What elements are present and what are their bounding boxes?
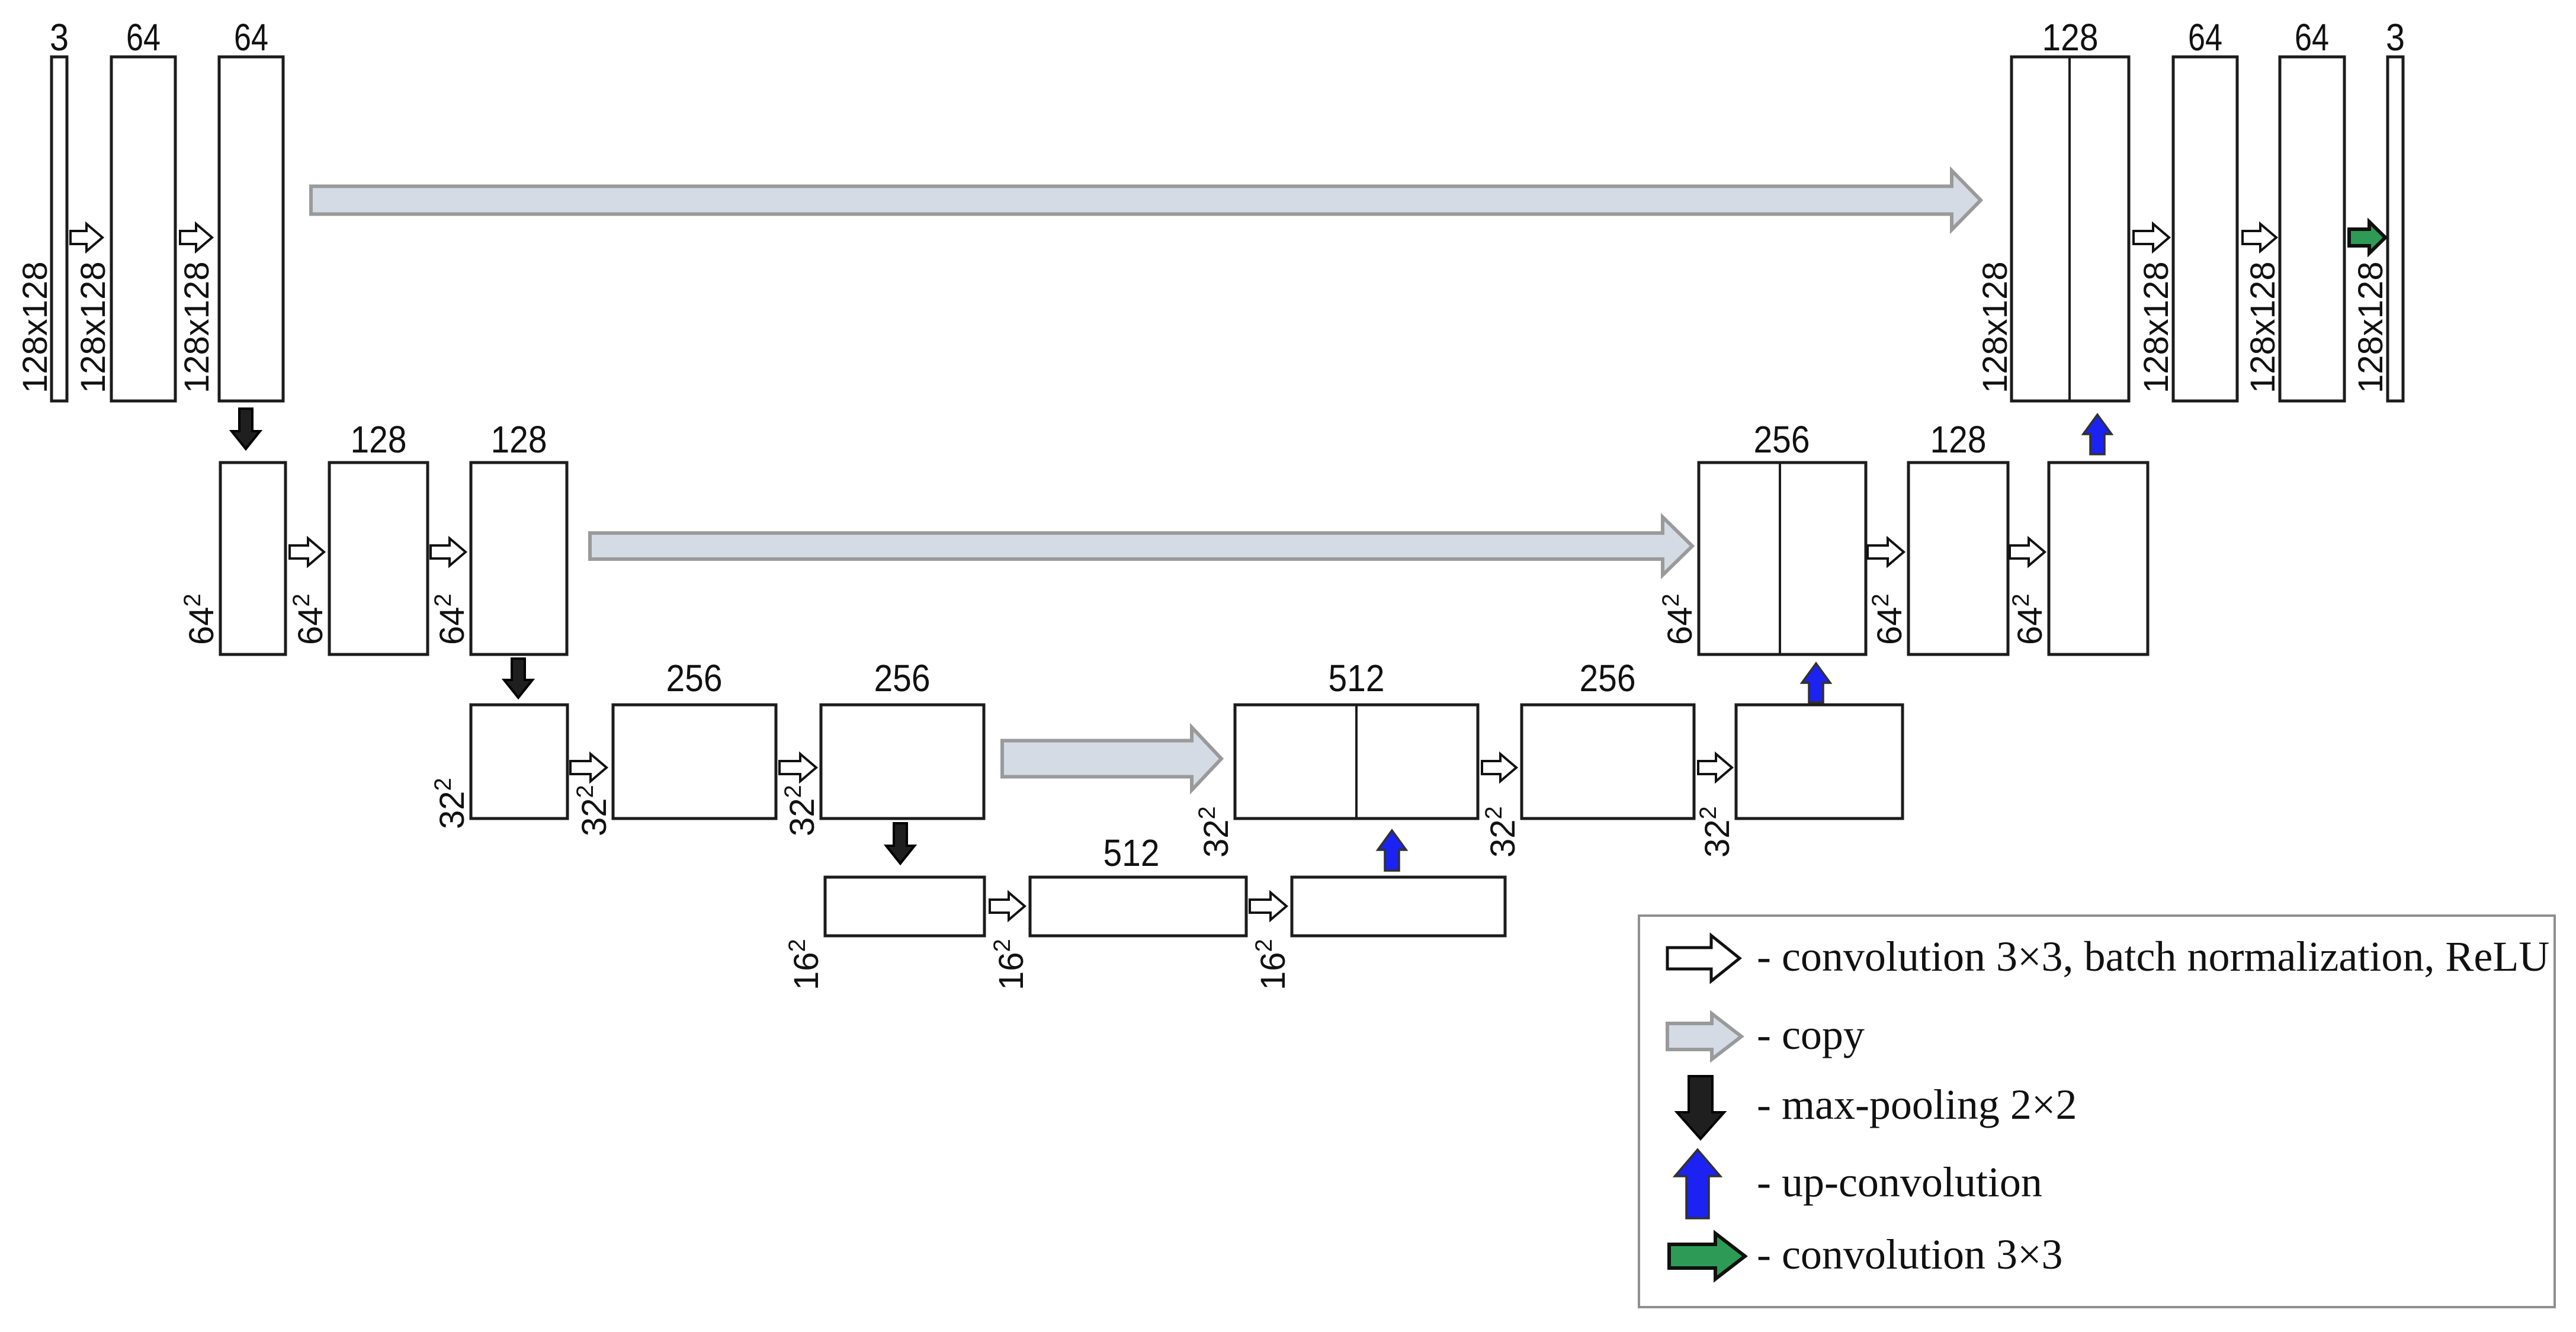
svg-text:- max-pooling 2×2: - max-pooling 2×2 — [1757, 1081, 2077, 1128]
svg-text:64: 64 — [126, 16, 161, 59]
svg-text:128: 128 — [2042, 16, 2099, 59]
encoder conv box 64@128x128 (first) — [111, 57, 175, 401]
decoder conv box 128 level2 — [1908, 463, 2008, 654]
copy arrow level3 (skip connection) — [1002, 727, 1221, 790]
up-convolution arrow level4 to level3 — [1378, 830, 1406, 871]
conv arrow concat to dec1 — [2134, 224, 2169, 251]
encoder box 32^2 (after pool) — [471, 705, 567, 819]
svg-text:256: 256 — [1754, 418, 1810, 461]
conv arrow level3 enc a to b — [570, 754, 607, 781]
conv arrow level2 enc b to c — [431, 538, 466, 566]
svg-text:64: 64 — [2295, 16, 2329, 59]
decoder conv box 64@128x128 (first) — [2173, 57, 2237, 401]
svg-text:128x128: 128x128 — [2244, 261, 2282, 393]
conv arrow level2 enc a to b — [290, 538, 324, 566]
legend max-pooling arrow — [1677, 1076, 1724, 1139]
legend copy arrow — [1667, 1014, 1741, 1060]
conv arrow level2 dec 128 to last — [2010, 538, 2045, 566]
conv arrow enc1 to enc2 — [180, 224, 212, 251]
decoder conv box 64@128x128 (second) — [2280, 57, 2344, 401]
encoder box 64^2 (after pool) — [220, 463, 285, 654]
svg-text:128x128: 128x128 — [2137, 261, 2176, 393]
encoder conv box 128 level2 (second) — [471, 463, 567, 654]
max-pool arrow level3 to level4 — [886, 823, 915, 864]
conv arrow dec1 to dec2 — [2243, 224, 2276, 251]
decoder conv box 256 level3 — [1522, 705, 1694, 819]
max-pool arrow level2 to level3 — [504, 659, 532, 698]
conv arrow level3 enc b to c — [779, 754, 816, 781]
decoder concatenated box 512 level3 — [1235, 705, 1478, 819]
max-pool arrow level1 to level2 — [232, 409, 260, 449]
svg-text:512: 512 — [1103, 832, 1160, 874]
decoder concatenated box 256 level2 — [1699, 463, 1866, 654]
up-convolution arrow level3 to level2 — [1802, 663, 1830, 702]
decoder concatenated box 128@128x128 — [2012, 57, 2129, 401]
svg-text:128x128: 128x128 — [178, 261, 216, 393]
conv arrow level2 dec concat to 128 — [1868, 538, 1904, 566]
svg-text:- copy: - copy — [1757, 1011, 1865, 1058]
svg-text:128x128: 128x128 — [2352, 261, 2390, 393]
encoder conv box 256 level3 (second) — [821, 705, 984, 819]
svg-text:256: 256 — [1580, 657, 1636, 699]
svg-text:256: 256 — [874, 657, 931, 699]
decoder box level3 (last) — [1736, 705, 1903, 819]
conv arrow bottleneck a to b — [990, 893, 1025, 920]
encoder conv box 256 level3 (first) — [613, 705, 776, 819]
bottleneck box 16^2 (after pool) — [825, 877, 984, 936]
conv arrow level3 dec concat to 256 — [1482, 754, 1516, 781]
green conv 3x3 arrow to output — [2349, 222, 2385, 253]
legend white conv arrow — [1667, 936, 1740, 981]
svg-text:3: 3 — [2386, 16, 2405, 59]
conv arrow bottleneck b to c — [1250, 893, 1287, 920]
conv arrow level3 dec 256 to last — [1698, 754, 1732, 781]
svg-text:128: 128 — [351, 418, 407, 461]
svg-text:128x128: 128x128 — [1976, 261, 2014, 393]
svg-text:128: 128 — [491, 418, 547, 461]
conv arrow input to enc1 — [70, 224, 102, 251]
svg-text:128: 128 — [1930, 418, 1987, 461]
bottleneck box (last) — [1292, 877, 1505, 936]
svg-text:128x128: 128x128 — [16, 261, 54, 393]
svg-text:- up-convolution: - up-convolution — [1757, 1158, 2042, 1206]
svg-text:256: 256 — [666, 657, 723, 699]
decoder box level2 (last) — [2049, 463, 2148, 654]
svg-text:3: 3 — [50, 16, 69, 59]
svg-text:64: 64 — [234, 16, 268, 59]
svg-text:- convolution 3×3, batch norma: - convolution 3×3, batch normalization, … — [1757, 933, 2549, 980]
copy arrow level1 (skip connection) — [311, 171, 1981, 230]
encoder conv box 128 level2 (first) — [329, 463, 428, 654]
legend green conv arrow — [1669, 1234, 1745, 1279]
copy arrow level2 (skip connection) — [590, 517, 1692, 575]
up-convolution arrow level2 to level1 — [2083, 415, 2112, 454]
encoder input feature map 3@128x128 — [52, 57, 67, 401]
svg-text:- convolution 3×3: - convolution 3×3 — [1757, 1231, 2063, 1278]
bottleneck conv box 512 — [1030, 877, 1246, 936]
svg-text:128x128: 128x128 — [74, 261, 113, 393]
legend box — [1639, 916, 2555, 1307]
legend up-convolution arrow — [1675, 1150, 1721, 1218]
encoder conv box 64@128x128 (second) — [219, 57, 283, 401]
svg-text:512: 512 — [1329, 657, 1385, 699]
svg-text:64: 64 — [2188, 16, 2222, 59]
output feature map 3@128x128 — [2388, 57, 2403, 401]
